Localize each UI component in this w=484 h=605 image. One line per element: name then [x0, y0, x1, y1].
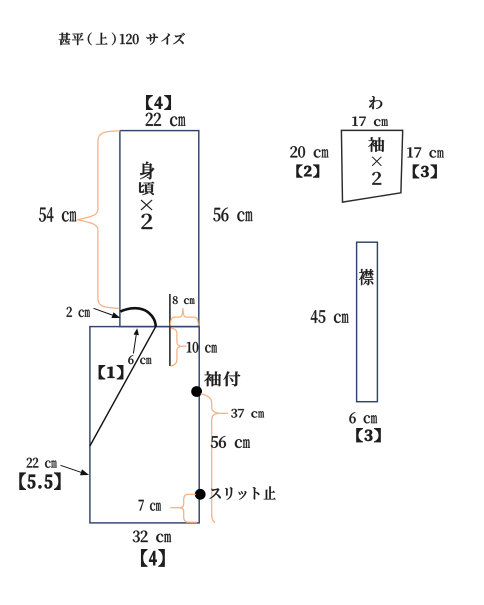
label 8 cm — [173, 296, 195, 304]
label 17 cm sleeve top — [352, 117, 388, 126]
label 【4】 top — [146, 95, 170, 109]
label 22 cm top — [146, 113, 186, 126]
label 頃 — [139, 182, 154, 195]
label 袖 — [368, 137, 384, 152]
8cm brace — [170, 308, 198, 326]
sleeve-attach dot (袖付) — [191, 386, 202, 397]
body upper rectangle (身頃) — [120, 131, 199, 327]
label × body — [141, 200, 153, 210]
arrow from 22cm/5.5 label — [61, 465, 82, 472]
sleeve quadrilateral (袖) — [341, 130, 402, 202]
label × sleeve — [372, 157, 382, 166]
label 17 cm sleeve right — [407, 147, 443, 157]
10cm brace — [170, 328, 181, 366]
label 32 cm — [133, 531, 171, 543]
vertical 8cm reference line — [169, 294, 171, 366]
label 身 — [140, 162, 155, 180]
collar rectangle (襟) — [357, 242, 378, 402]
label 【3】 collar — [357, 429, 381, 442]
label 56 cm upper — [213, 208, 252, 222]
arrow from 2cm label — [94, 308, 113, 315]
label 37 cm — [231, 409, 264, 418]
title 甚平（上）120 サイズ — [59, 33, 185, 46]
label 【4】 bottom — [141, 549, 164, 566]
label 【3】 sleeve — [413, 165, 436, 178]
37cm connector — [219, 412, 228, 414]
slit-stop dot (スリット止) — [195, 489, 206, 500]
label 【2】 — [297, 165, 319, 178]
label 45 cm — [311, 310, 349, 323]
label 2 body — [142, 214, 153, 229]
label 56 cm lower — [211, 436, 250, 448]
label 7 cm — [139, 500, 161, 511]
label 2 cm — [67, 307, 90, 317]
10cm connector — [181, 345, 186, 347]
label 6 cm — [128, 355, 151, 364]
label 20 cm — [290, 146, 328, 157]
label 2 sleeve — [372, 172, 381, 185]
label 10 cm — [187, 342, 217, 353]
label わ — [369, 96, 382, 109]
label 【1】 — [99, 366, 123, 380]
front opening diagonal line — [90, 327, 156, 446]
37cm brace — [201, 394, 219, 523]
7cm brace — [180, 494, 197, 522]
label 6 cm collar — [349, 412, 377, 423]
label 22 cm bottom-left — [27, 458, 57, 468]
neckline curve — [120, 308, 155, 326]
arrow from 6cm label — [133, 335, 136, 354]
label 袖付 — [204, 371, 240, 386]
label 襟 — [359, 269, 374, 285]
label 54 cm — [39, 207, 76, 221]
body lower rectangle — [90, 327, 199, 523]
label 【5.5】 — [20, 473, 61, 490]
label スリット止 — [210, 486, 276, 499]
7cm connector — [170, 507, 181, 509]
54cm brace — [77, 131, 120, 308]
